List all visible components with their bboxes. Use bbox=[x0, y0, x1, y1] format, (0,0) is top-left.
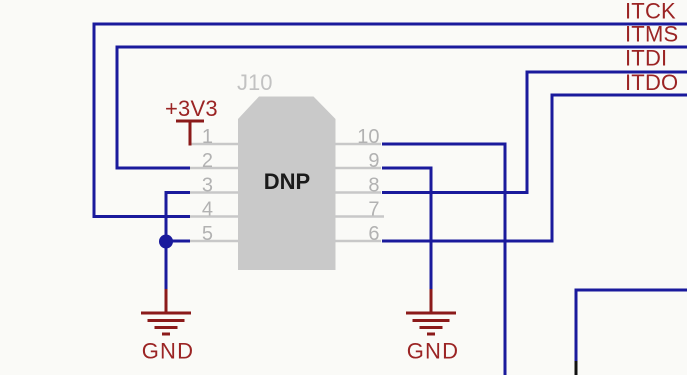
svg-text:3: 3 bbox=[202, 174, 213, 196]
pin 8 stub bbox=[336, 191, 382, 194]
svg-text:6: 6 bbox=[368, 223, 379, 245]
wire pin5 to junction bbox=[166, 240, 190, 243]
svg-text:9: 9 bbox=[368, 150, 379, 172]
wire black segment bottom-right bbox=[575, 361, 578, 375]
svg-text:ITCK: ITCK bbox=[625, 0, 676, 24]
svg-text:8: 8 bbox=[368, 174, 379, 196]
pin 4 stub bbox=[190, 215, 238, 218]
svg-text:DNP: DNP bbox=[264, 169, 310, 194]
pin 5 stub bbox=[190, 240, 238, 243]
wire ITDO (pin6 right, up at x=552, right to edge) bbox=[382, 95, 687, 241]
svg-text:GND: GND bbox=[407, 339, 460, 364]
svg-text:+3V3: +3V3 bbox=[165, 96, 218, 121]
svg-text:ITDI: ITDI bbox=[625, 46, 667, 71]
wire ITMS (pin2 left, up, right to edge) bbox=[117, 47, 687, 168]
svg-text:GND: GND bbox=[142, 339, 195, 364]
svg-text:2: 2 bbox=[202, 150, 213, 172]
pin 7 stub bbox=[336, 215, 385, 218]
wire pin10 down to bottom edge bbox=[382, 144, 505, 375]
svg-text:ITMS: ITMS bbox=[625, 22, 678, 47]
svg-text:J10: J10 bbox=[237, 70, 272, 95]
wire ITDI (pin8 right, up, right to edge) bbox=[382, 72, 687, 193]
pin 10 stub bbox=[336, 143, 382, 146]
pin 2 stub bbox=[190, 167, 238, 170]
wire ITCK (pin4 left, up, right to edge) bbox=[94, 24, 687, 217]
svg-text:7: 7 bbox=[368, 198, 379, 220]
pin 9 stub bbox=[336, 167, 382, 170]
power +3V3 symbol bbox=[176, 121, 204, 146]
svg-text:10: 10 bbox=[357, 126, 379, 148]
wire pin3 to junction bbox=[166, 193, 190, 292]
svg-text:ITDO: ITDO bbox=[625, 70, 678, 95]
svg-text:5: 5 bbox=[202, 223, 213, 245]
svg-text:4: 4 bbox=[202, 198, 213, 220]
svg-text:1: 1 bbox=[202, 126, 213, 148]
pin 3 stub bbox=[190, 191, 238, 194]
connector J10 body bbox=[238, 97, 336, 271]
wire pin9 down to GND bbox=[382, 168, 431, 291]
pin 1 stub bbox=[190, 143, 238, 146]
pin 6 stub bbox=[336, 240, 382, 243]
junction node bbox=[159, 235, 173, 249]
ground symbol GND2 bbox=[406, 289, 456, 334]
wire bottom-right from edge down bbox=[576, 290, 687, 361]
ground symbol GND1 bbox=[141, 289, 191, 334]
